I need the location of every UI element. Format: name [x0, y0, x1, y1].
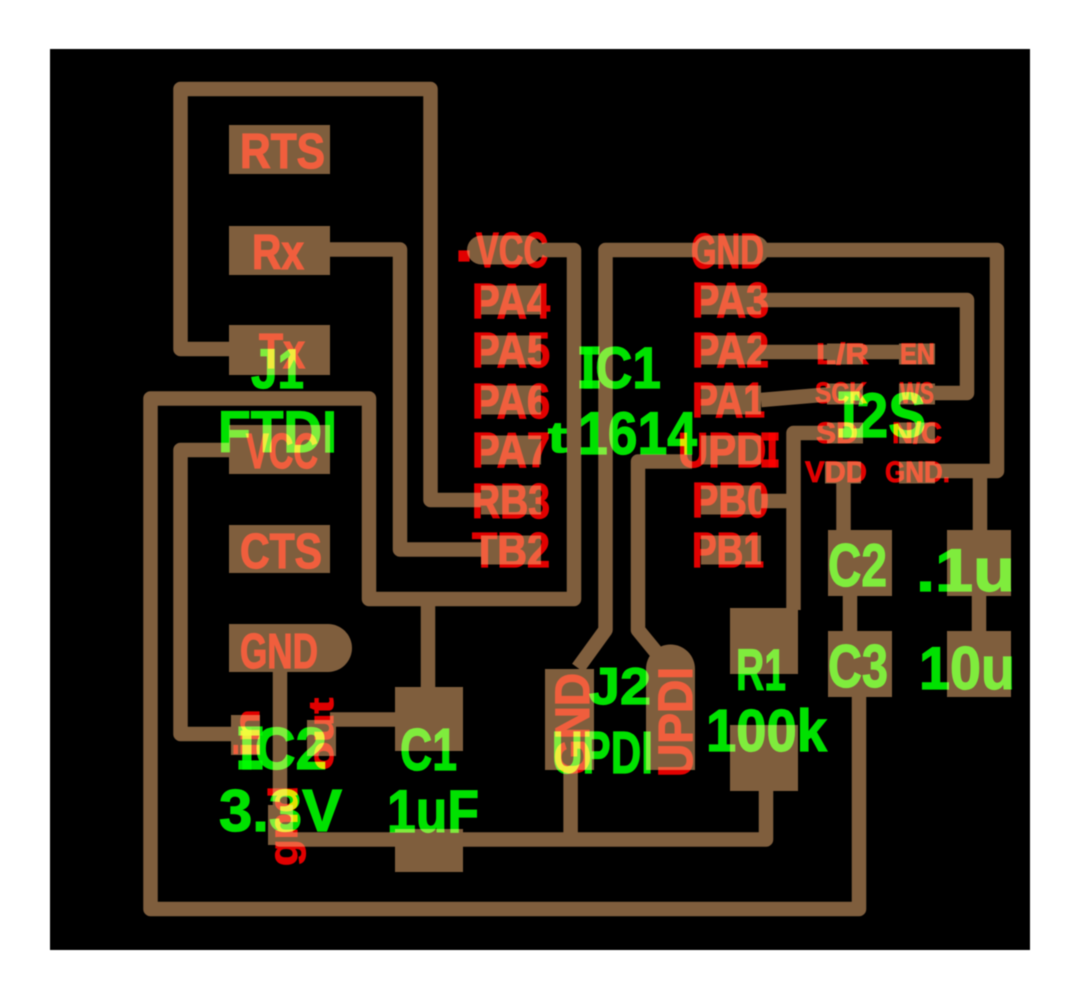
IC1 pad 14 GND — [693, 236, 769, 265]
capacitor C2 pad — [828, 530, 892, 596]
IC1 pad PB1 — [701, 536, 761, 565]
connector J1 pad Rx — [229, 226, 330, 275]
resistor R1 pad bottom — [730, 725, 798, 791]
IC1 pad PA6 — [481, 386, 541, 415]
regulator IC2 pad in — [231, 715, 260, 755]
svg-text:GND: GND — [691, 225, 764, 279]
svg-text:RTS: RTS — [240, 125, 325, 179]
svg-text:UPDI: UPDI — [552, 720, 653, 786]
svg-text:R1: R1 — [736, 638, 786, 703]
svg-text:PB1: PB1 — [692, 524, 764, 578]
connector J2 pad GND — [545, 669, 594, 770]
svg-text:L/R: L/R — [816, 338, 869, 371]
svg-text:IC2: IC2 — [239, 716, 327, 782]
svg-text:GND: GND — [240, 625, 318, 679]
wire GND stub to C4 (.1u) — [973, 471, 988, 536]
wire J1.Rx to IC1.TB2 — [330, 250, 481, 550]
I2S module pad L/R — [827, 344, 863, 365]
svg-text:C1: C1 — [400, 717, 457, 783]
capacitor C3 pad — [828, 631, 892, 697]
IC1 pad PB0 — [701, 486, 761, 515]
svg-text:100k: 100k — [706, 698, 827, 764]
svg-text:C3: C3 — [828, 633, 888, 700]
serif marks for stroke-font style capital I glyphs — [580, 347, 599, 354]
svg-text:3.3V: 3.3V — [219, 778, 342, 844]
svg-text:VDD: VDD — [805, 456, 867, 489]
I2S module pad EN — [899, 344, 935, 365]
connector J1 pad CTS — [229, 525, 330, 573]
wire IC1.PA3 to I2S WS — [761, 300, 967, 393]
svg-text:EN: EN — [900, 338, 935, 371]
svg-text:VCC: VCC — [476, 224, 548, 278]
capacitor C3 pad 10u — [947, 631, 1011, 697]
IC1 pad 1 VCC — [467, 236, 541, 265]
svg-text:RB3: RB3 — [472, 475, 550, 529]
I2S module pad WS — [899, 384, 935, 405]
svg-text:IC1: IC1 — [581, 336, 661, 401]
wire GND bottom rail — [280, 668, 766, 840]
I2S module pad VDD — [825, 462, 861, 484]
wire IC1.PA2 to I2S L/R EN — [761, 345, 914, 360]
svg-text:PA5: PA5 — [472, 324, 550, 378]
svg-text:J2: J2 — [589, 658, 651, 716]
svg-text:FTDI: FTDI — [218, 400, 337, 465]
I2S module pad N/C — [899, 423, 935, 444]
connector J1 pad RTS — [229, 125, 330, 174]
wire GND top rail — [578, 250, 997, 668]
capacitor C2 pad .1u — [947, 530, 1011, 596]
I2S module pad SCK — [827, 384, 863, 405]
svg-text:PA7: PA7 — [472, 424, 550, 478]
IC1 pad PA2 — [701, 336, 761, 365]
svg-text:PA1: PA1 — [692, 374, 765, 428]
svg-text:Rx: Rx — [252, 226, 304, 280]
regulator IC2 pad out — [307, 720, 336, 756]
regulator IC2 pad gnd — [268, 805, 293, 845]
svg-text:PA4: PA4 — [472, 275, 550, 329]
svg-text:PA3: PA3 — [692, 274, 769, 328]
svg-text:1614: 1614 — [578, 400, 698, 467]
I2S module pad GND — [899, 462, 935, 484]
capacitor C1 pad bottom — [395, 829, 463, 872]
svg-text:t: t — [548, 413, 567, 462]
IC1 pad PA7 — [481, 436, 541, 465]
svg-text:1uF: 1uF — [387, 778, 479, 845]
IC1 pad UPDI — [701, 436, 761, 465]
IC1 pad PA3 — [701, 286, 761, 315]
IC1 pad PB2 — [481, 536, 541, 565]
connector J1 pad Tx — [229, 325, 330, 375]
wire VCC rail drop to C1 — [421, 599, 436, 692]
svg-text:PA6: PA6 — [472, 375, 550, 429]
svg-text:C2: C2 — [828, 532, 887, 599]
IC1 pad PA1 — [701, 386, 761, 415]
svg-text:.1u: .1u — [916, 537, 1015, 604]
svg-text:UPDI: UPDI — [650, 667, 703, 777]
svg-text:TB2: TB2 — [472, 524, 550, 578]
wire IC2.out to C1 — [330, 712, 412, 727]
capacitor C1 pad top — [395, 687, 463, 751]
wire C2 to C3 — [843, 592, 858, 634]
svg-text:10u: 10u — [919, 635, 1015, 702]
wire IC1.PB0 to I2S SD and R1 — [794, 433, 834, 610]
wire C4 .1u to C5 10u — [972, 592, 987, 634]
IC1 pad PB3 — [481, 486, 541, 515]
svg-text:PB0: PB0 — [692, 474, 769, 528]
connector J2 pad UPDI — [646, 669, 695, 770]
svg-text:J1: J1 — [251, 337, 304, 400]
connector J1 pad VCC — [229, 425, 330, 474]
IC1 pad PA5 — [481, 336, 541, 365]
svg-text:GND.: GND. — [885, 456, 950, 489]
wire J1.Tx to IC1.RB3 loop — [181, 89, 482, 500]
wire J1.VCC to IC2.in — [181, 450, 238, 734]
pin1 dot IC1 — [459, 251, 469, 261]
svg-text:PA2: PA2 — [692, 324, 769, 378]
wire IC1.UPDI to J2.UPDI — [638, 462, 692, 653]
wire VCC rail big loop — [151, 250, 860, 909]
wire IC1.PA1 to I2S SCK — [761, 394, 833, 400]
I2S module pad SD — [827, 423, 863, 444]
wire I2S VDD to C2 — [836, 478, 851, 534]
IC1 pad PA4 — [481, 286, 541, 315]
resistor R1 pad top — [730, 608, 798, 674]
wire J2.GND stub down — [563, 768, 578, 840]
svg-text:CTS: CTS — [240, 525, 322, 579]
connector J1 pad GND pill — [229, 624, 328, 672]
